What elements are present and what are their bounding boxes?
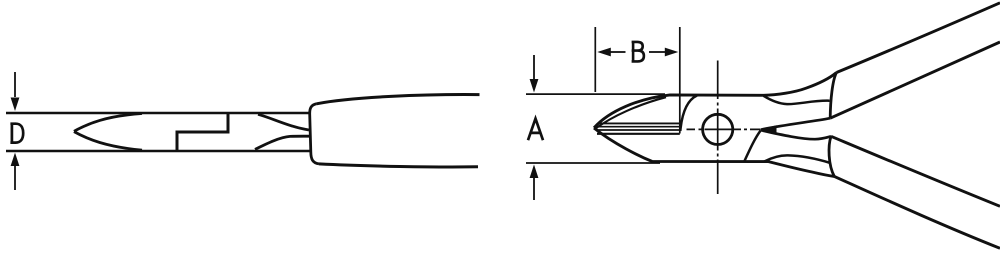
upper neck outer edge: [764, 73, 837, 96]
dimension arrow B left: [610, 51, 626, 53]
jaw tip lens upper curve: [74, 114, 142, 132]
lower neck outer edge: [769, 162, 835, 177]
cutter head upper bevel line: [596, 97, 667, 128]
dimension arrow A top: [533, 55, 535, 80]
dimension arrow D bottom: [14, 166, 16, 190]
cutting edge line 4: [597, 133, 680, 135]
joint lower transition curve: [255, 136, 310, 149]
handle top edge: [317, 95, 480, 104]
lower grip cap: [829, 136, 834, 176]
extension line A bottom: [526, 162, 660, 164]
label B: [632, 42, 644, 62]
dimension arrow D top: [14, 72, 16, 97]
box joint step: [177, 113, 228, 151]
lower grip outer edge: [834, 176, 1000, 248]
upper grip outer edge: [837, 3, 1000, 73]
dimension arrow A bottom: [533, 178, 535, 200]
upper neck dip curve: [764, 96, 830, 104]
cutter head lower outline: [594, 128, 769, 162]
horizontal centerline (dash-dot): [687, 128, 761, 130]
cutting edge line 1: [598, 122, 680, 124]
extension line A top: [526, 93, 665, 95]
lower handle inner edge from dart: [761, 130, 831, 139]
handle bottom edge: [319, 164, 478, 167]
cutting edge line 3: [597, 129, 680, 131]
vertical centerline (dash-dot): [717, 61, 719, 195]
joint upper transition curve: [258, 114, 309, 130]
extension line B right: [679, 27, 681, 134]
upper grip inner edge: [830, 42, 1000, 118]
upper handle inner edge from dart: [761, 118, 830, 129]
lower grip inner edge: [831, 136, 1000, 206]
handle cap left edge: [310, 104, 319, 164]
lower neck dip curve: [764, 155, 831, 163]
dimension arrow B right: [649, 51, 665, 53]
jaw tip lens lower curve: [74, 132, 142, 151]
joint crossing line (lower jaw to pivot dart): [744, 130, 761, 161]
label A: [528, 119, 543, 141]
joint dart wedge: [760, 125, 777, 133]
upper grip cap: [830, 73, 836, 119]
wire: bottom jaw line / extension line: [6, 150, 310, 153]
extension line B left: [594, 27, 596, 92]
jaw back arc: [680, 96, 697, 132]
pivot screw circle: [703, 114, 733, 144]
label D: [10, 124, 23, 143]
cutter head upper outer outline: [594, 95, 764, 128]
wire: top jaw line / extension line: [6, 112, 310, 115]
cutting edge line 2: [597, 126, 680, 128]
